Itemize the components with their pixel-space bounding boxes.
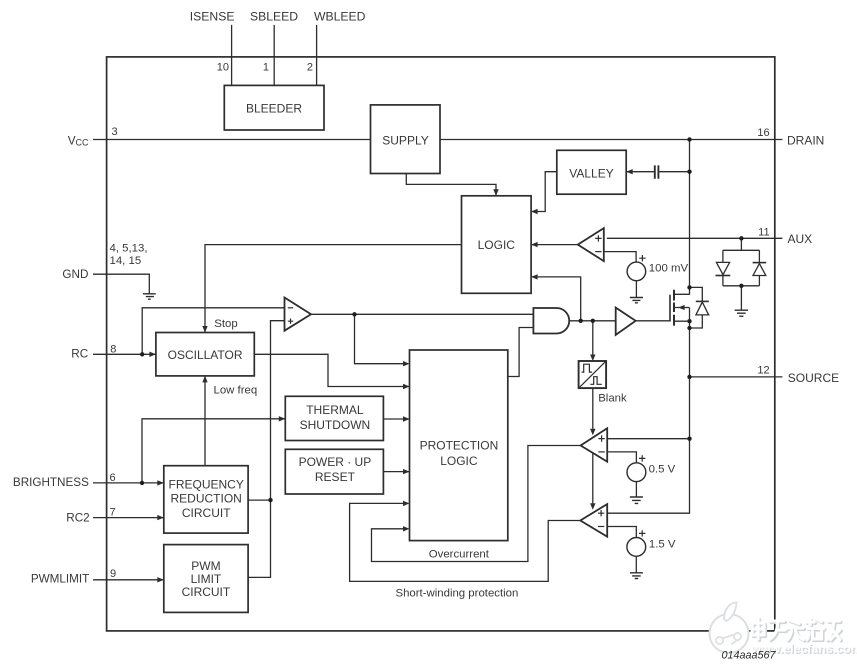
svg-text:4, 5,13,: 4, 5,13, [110, 242, 148, 254]
svg-text:3: 3 [112, 126, 118, 138]
svg-text:CIRCUIT: CIRCUIT [182, 506, 231, 520]
svg-text:GND: GND [62, 268, 88, 281]
svg-text:10: 10 [217, 62, 229, 74]
svg-text:ISENSE: ISENSE [190, 10, 235, 24]
svg-text:8: 8 [110, 343, 116, 355]
svg-text:RESET: RESET [315, 470, 356, 484]
svg-text:6: 6 [110, 472, 116, 484]
svg-text:RC2: RC2 [66, 511, 89, 524]
svg-text:Short-winding protection: Short-winding protection [396, 587, 519, 599]
svg-text:Overcurrent: Overcurrent [429, 548, 490, 560]
svg-text:WBLEED: WBLEED [314, 10, 366, 24]
svg-text:LOGIC: LOGIC [440, 454, 478, 468]
svg-text:014aaa567: 014aaa567 [722, 650, 777, 662]
svg-text:Stop: Stop [214, 318, 237, 330]
svg-text:FREQUENCY: FREQUENCY [169, 478, 244, 492]
svg-text:REDUCTION: REDUCTION [171, 492, 242, 506]
svg-text:SOURCE: SOURCE [788, 371, 839, 385]
svg-text:BLEEDER: BLEEDER [246, 102, 302, 116]
svg-text:CC: CC [76, 138, 89, 148]
svg-text:12: 12 [757, 364, 769, 376]
svg-text:SBLEED: SBLEED [250, 10, 298, 24]
svg-text:Low freq: Low freq [214, 385, 258, 397]
svg-text:V: V [68, 134, 76, 147]
svg-text:RC: RC [71, 347, 88, 360]
svg-text:POWER · UP: POWER · UP [299, 455, 372, 469]
svg-text:CIRCUIT: CIRCUIT [182, 585, 231, 599]
svg-text:14, 15: 14, 15 [110, 255, 142, 267]
svg-text:1: 1 [263, 62, 269, 74]
svg-text:SUPPLY: SUPPLY [382, 134, 428, 148]
svg-text:16: 16 [757, 127, 769, 139]
svg-text:2: 2 [307, 62, 313, 74]
svg-text:THERMAL: THERMAL [306, 403, 364, 417]
svg-text:7: 7 [110, 507, 116, 519]
svg-text:BRIGHTNESS: BRIGHTNESS [13, 476, 89, 489]
svg-text:100 mV: 100 mV [649, 263, 689, 275]
svg-text:AUX: AUX [788, 232, 813, 246]
svg-text:OSCILLATOR: OSCILLATOR [168, 348, 243, 362]
svg-text:Blank: Blank [598, 393, 627, 405]
svg-text:0.5 V: 0.5 V [649, 463, 676, 475]
svg-text:PWM: PWM [191, 559, 220, 573]
svg-text:9: 9 [110, 568, 116, 580]
svg-text:LOGIC: LOGIC [478, 238, 516, 252]
svg-text:PWMLIMIT: PWMLIMIT [31, 573, 89, 586]
svg-text:11: 11 [758, 226, 769, 238]
svg-text:DRAIN: DRAIN [787, 133, 824, 147]
svg-text:PROTECTION: PROTECTION [420, 439, 499, 453]
svg-text:1.5 V: 1.5 V [649, 538, 676, 550]
svg-text:VALLEY: VALLEY [569, 167, 613, 181]
svg-text:SHUTDOWN: SHUTDOWN [300, 418, 371, 432]
